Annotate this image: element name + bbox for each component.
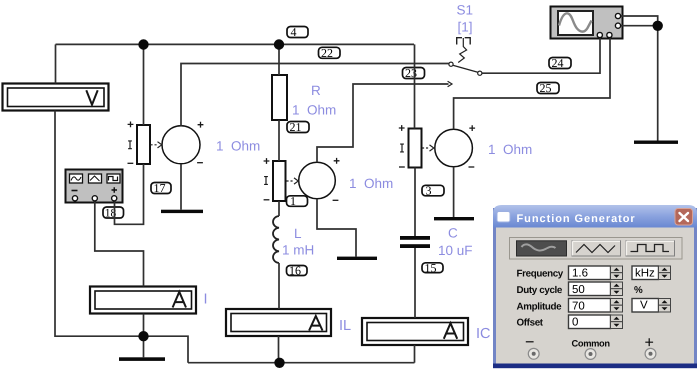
svg-text:Duty cycle: Duty cycle	[517, 285, 563, 296]
svg-text:[1]: [1]	[458, 20, 473, 35]
ground (bottom left)	[119, 357, 165, 361]
svg-text:10 uF: 10 uF	[438, 243, 473, 258]
wire ammeter I bottom + ground stub	[143, 314, 145, 358]
svg-text:Function Generator: Function Generator	[517, 213, 636, 225]
terminals	[528, 348, 656, 359]
ground (under U2)	[337, 257, 377, 260]
wire bottom rail	[188, 362, 415, 364]
polarity + (U2 circle)	[334, 158, 340, 164]
svg-text:R: R	[311, 83, 321, 98]
triangle button	[572, 241, 621, 256]
inductor L 1 mH	[273, 216, 279, 263]
resistor R (middle branch)	[272, 75, 287, 120]
svg-text:V: V	[640, 300, 648, 312]
wire IL to bottom rail	[278, 336, 280, 363]
sine button (pressed)	[517, 241, 567, 256]
polarity - (U1 sensor)	[128, 162, 134, 164]
node 18 label	[103, 207, 124, 220]
polarity - (U3 sensor)	[399, 166, 405, 168]
FG icon terminals	[72, 196, 77, 201]
svg-text:Common: Common	[572, 339, 611, 349]
switch S1	[448, 38, 482, 87]
node 3 label	[422, 184, 444, 198]
ammeter IL	[226, 309, 331, 336]
svg-text:Amplitude: Amplitude	[517, 302, 563, 313]
wire U2 sensor to L	[278, 201, 280, 216]
node 24 label	[549, 56, 571, 70]
svg-text:4: 4	[291, 25, 297, 39]
svg-text:1 Ohm: 1 Ohm	[216, 139, 260, 154]
polarity - (U2 sensor)	[264, 199, 270, 201]
wire left node jog to rail	[144, 336, 189, 363]
junction node dot (bottom rail)	[274, 358, 284, 368]
input boxes	[569, 266, 611, 329]
wire U1 output bottom to ground	[180, 164, 182, 210]
node 4 label	[287, 25, 308, 39]
wire R branch drop	[278, 44, 280, 75]
junction node dot	[274, 39, 284, 49]
junction node dot	[138, 39, 148, 49]
svg-text:IC: IC	[476, 326, 491, 342]
scope terminals	[615, 13, 620, 18]
svg-text:I: I	[204, 292, 208, 308]
wire U1 output to switch throw 1	[181, 64, 450, 126]
title icon	[497, 212, 510, 223]
polarity + (U1 sensor)	[128, 122, 134, 128]
wire branch1 drop	[143, 44, 145, 125]
voltmeter V	[3, 84, 109, 111]
svg-text:Frequency: Frequency	[517, 269, 564, 280]
svg-text:50: 50	[572, 284, 585, 296]
wire L to ammeter IL	[278, 263, 280, 309]
dashed control arrow U1	[151, 144, 159, 146]
wire top rail	[56, 43, 415, 45]
wire U2 output bottom to ground	[317, 199, 356, 257]
wire R to U2 sensor	[278, 120, 280, 161]
svg-text:Offset: Offset	[517, 318, 544, 329]
wire C branch drop	[414, 44, 416, 128]
node 23 label	[403, 66, 425, 80]
svg-text:1 Ohm: 1 Ohm	[349, 176, 393, 191]
wire U3 output to scope channel B	[454, 37, 610, 129]
svg-text:3: 3	[426, 184, 432, 198]
wire V bottom to left node	[55, 111, 144, 337]
wire U3 sensor to capacitor	[414, 168, 416, 237]
sensing resistor of CCVS U1 (left branch)	[137, 125, 150, 164]
ground (under U1)	[161, 210, 203, 213]
svg-text:1 Ohm: 1 Ohm	[292, 103, 336, 118]
close button	[675, 209, 693, 226]
current label I (U3 sensor)	[400, 144, 404, 152]
svg-text:70: 70	[572, 301, 585, 313]
wire U1 sensor bottom to FG plus	[115, 164, 144, 224]
oscilloscope XSC	[551, 7, 623, 39]
CCVS U2 output circle	[299, 162, 336, 199]
Function Generator dialog	[493, 204, 697, 370]
node 16 label	[287, 264, 308, 278]
svg-text:L: L	[294, 226, 302, 241]
spinners	[611, 266, 671, 329]
dashed control arrow U3	[422, 147, 430, 149]
dialog frame	[493, 208, 697, 368]
wire capacitor to ammeter IC	[414, 248, 416, 318]
svg-text:1 Ohm: 1 Ohm	[488, 142, 532, 157]
svg-text:1 mH: 1 mH	[282, 243, 314, 258]
wire U2 output to switch throw 2	[317, 84, 449, 162]
wire FG common to ammeter I	[95, 200, 144, 287]
svg-text:1: 1	[290, 194, 296, 208]
svg-text:S1: S1	[457, 3, 474, 18]
CCVS U3 output circle	[435, 129, 473, 167]
capacitor C 10 uF	[400, 236, 430, 248]
wire scope ground terminals	[621, 16, 658, 141]
svg-text:C: C	[448, 226, 458, 241]
polarity labels U1 sensor	[128, 122, 476, 201]
sensing resistor of CCVS U3 (RC branch)	[409, 129, 422, 168]
polarity - (U3 circle)	[469, 166, 475, 168]
svg-text:0: 0	[572, 317, 578, 329]
svg-text:17: 17	[154, 181, 166, 195]
svg-text:22: 22	[321, 46, 333, 60]
wire V top	[55, 44, 57, 83]
node 25 label	[537, 81, 559, 95]
junction node dot (bottom left)	[138, 331, 148, 341]
node 21 label	[287, 120, 309, 134]
current label I (U2 sensor)	[264, 177, 268, 185]
svg-text:kHz: kHz	[635, 268, 655, 280]
node 22 label	[319, 46, 341, 60]
svg-text:1.6: 1.6	[572, 268, 588, 280]
node 1 label	[287, 194, 308, 208]
sensing resistor of CCVS U2 (RL branch)	[273, 161, 286, 201]
polarity + (U3 sensor)	[399, 125, 405, 131]
node 15 label	[422, 261, 443, 275]
row labels	[517, 269, 644, 329]
dashed control arrow U2	[287, 180, 295, 182]
polarity + (U2 sensor)	[264, 158, 270, 164]
ground (under U3)	[434, 217, 474, 220]
function generator icon XFG	[66, 170, 123, 203]
ground (scope)	[634, 141, 678, 144]
svg-text:21: 21	[290, 120, 302, 134]
waveform button panel	[510, 238, 683, 260]
node 17 label	[151, 181, 171, 195]
wire U3 output bottom to ground	[453, 167, 455, 217]
polarity + (U3 circle)	[469, 125, 475, 131]
polarity + (U1 circle)	[198, 122, 204, 128]
ammeter I	[90, 287, 196, 314]
unit boxes	[632, 266, 659, 312]
svg-text:25: 25	[540, 81, 552, 95]
polarity - (U1 circle)	[197, 162, 203, 164]
ammeter IC	[362, 318, 468, 345]
junction node dot (scope)	[653, 21, 663, 31]
wire switch pole to scope channel A	[480, 37, 600, 73]
square button	[626, 241, 675, 256]
svg-text:16: 16	[289, 264, 301, 278]
dialog bottom border	[493, 364, 697, 369]
wire IC bottom to rail	[414, 345, 416, 363]
polarity - (U2 circle)	[333, 199, 339, 201]
svg-text:24: 24	[552, 56, 564, 70]
current label I (U1 sensor)	[128, 141, 132, 149]
svg-text:15: 15	[425, 261, 437, 275]
svg-text:IL: IL	[339, 318, 351, 334]
terminals row labels	[526, 338, 653, 348]
CCVS U1 output circle	[162, 126, 200, 164]
svg-text:%: %	[634, 285, 643, 296]
